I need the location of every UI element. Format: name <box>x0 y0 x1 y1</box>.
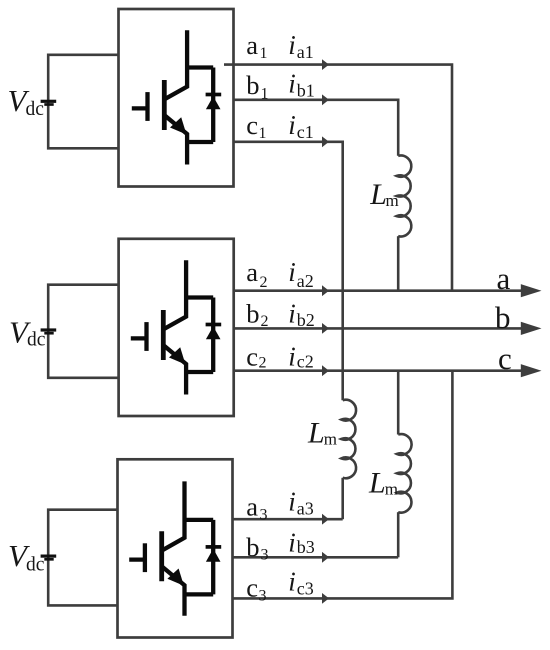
wire Lm1 to phase a <box>397 236 400 291</box>
svg-text:3: 3 <box>259 587 267 604</box>
svg-text:c3: c3 <box>297 578 314 598</box>
battery Vdc3 <box>41 554 57 557</box>
wire c3 <box>233 371 453 599</box>
battery Vdc1 <box>41 100 57 103</box>
svg-text:i: i <box>288 68 296 98</box>
wire a2 phase a <box>234 289 527 292</box>
svg-text:a2: a2 <box>297 271 314 291</box>
arrow ia1 <box>322 59 329 70</box>
svg-text:L: L <box>368 467 386 500</box>
svg-text:a1: a1 <box>297 42 314 62</box>
svg-text:dc: dc <box>27 330 46 351</box>
wire Lm2 to a3 <box>341 478 344 519</box>
inductor Lm2 coil <box>341 400 356 478</box>
svg-text:c: c <box>246 573 258 603</box>
arrow phase c <box>521 364 542 377</box>
wire b2 phase b <box>234 327 527 330</box>
arrow ia3 <box>322 514 329 525</box>
svg-text:2: 2 <box>259 355 267 372</box>
wire Vdc loop 1 <box>48 55 118 149</box>
inductor Lm3 coil <box>397 434 412 513</box>
arrow phase a <box>521 284 542 297</box>
svg-text:3: 3 <box>260 507 268 524</box>
svg-text:b: b <box>246 298 259 328</box>
svg-text:i: i <box>288 486 296 516</box>
svg-text:a: a <box>246 30 258 60</box>
svg-text:1: 1 <box>259 125 267 142</box>
svg-text:b1: b1 <box>297 81 315 101</box>
svg-text:1: 1 <box>261 85 269 102</box>
svg-text:2: 2 <box>260 274 268 291</box>
battery Vdc2 <box>41 328 57 331</box>
svg-text:a: a <box>497 261 511 296</box>
svg-text:m: m <box>386 191 399 210</box>
wire b3 <box>233 556 399 559</box>
wire c1 <box>234 142 343 400</box>
svg-text:i: i <box>288 567 296 597</box>
inductor Lm1 coil <box>397 155 412 236</box>
arrow ib1 <box>322 94 329 105</box>
inverter module box 1 <box>119 9 234 187</box>
arrow ic2 <box>322 365 329 376</box>
svg-text:a: a <box>246 257 258 287</box>
svg-text:c: c <box>246 110 258 140</box>
svg-text:b: b <box>495 300 511 335</box>
svg-text:b: b <box>246 70 259 100</box>
svg-text:i: i <box>288 30 296 60</box>
svg-text:1: 1 <box>260 45 268 62</box>
svg-text:c1: c1 <box>297 122 314 142</box>
wire Vdc loop 2 <box>48 285 118 378</box>
svg-text:3: 3 <box>261 546 269 563</box>
svg-text:b3: b3 <box>297 537 315 557</box>
arrow ib3 <box>322 552 329 563</box>
arrow ib2 <box>322 323 329 334</box>
svg-text:L: L <box>369 178 387 211</box>
wire Lm3 to b3 <box>397 512 400 557</box>
wire Vdc loop 3 <box>48 510 117 606</box>
svg-text:2: 2 <box>261 313 269 330</box>
wire b1 <box>234 100 399 156</box>
svg-text:a: a <box>246 491 258 521</box>
svg-text:i: i <box>288 110 296 140</box>
IGBT symbol module 2 <box>131 260 186 394</box>
inverter module box 2 <box>119 239 234 416</box>
inverter module box 3 <box>118 459 233 637</box>
svg-text:L: L <box>307 417 325 450</box>
arrow ic1 <box>322 136 329 147</box>
wire c2 phase c <box>234 369 527 372</box>
svg-text:a3: a3 <box>297 498 314 518</box>
IGBT symbol module 1 <box>132 30 187 164</box>
arrow phase b <box>521 322 542 335</box>
svg-text:dc: dc <box>26 554 45 575</box>
wire a3 <box>233 518 343 521</box>
wire c2 to Lm3 <box>397 371 400 435</box>
svg-text:i: i <box>288 257 296 287</box>
svg-text:c: c <box>246 342 258 372</box>
svg-text:b2: b2 <box>297 310 315 330</box>
svg-text:c: c <box>498 341 512 376</box>
svg-text:c2: c2 <box>297 352 314 372</box>
svg-text:dc: dc <box>26 99 45 120</box>
svg-text:b: b <box>246 532 259 562</box>
svg-text:i: i <box>288 342 296 372</box>
svg-text:i: i <box>288 298 296 328</box>
svg-text:i: i <box>288 527 296 557</box>
IGBT symbol module 3 <box>129 481 184 615</box>
svg-text:m: m <box>385 479 398 498</box>
wire a1 <box>224 65 452 291</box>
arrow ia2 <box>322 285 329 296</box>
svg-text:m: m <box>324 429 337 448</box>
arrow ic3 <box>322 593 329 604</box>
